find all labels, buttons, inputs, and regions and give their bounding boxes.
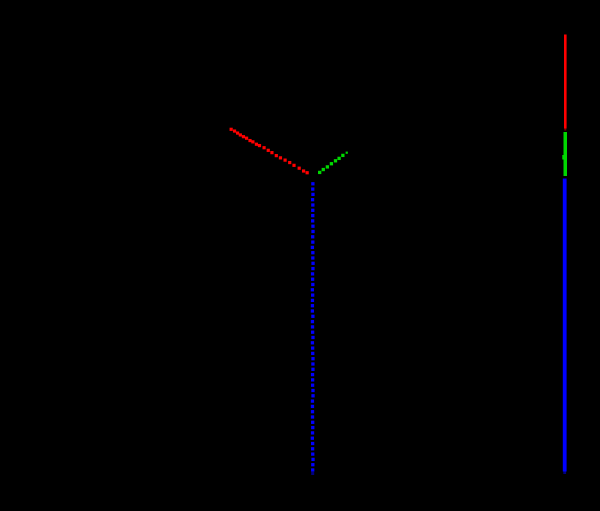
- right bar blue faint tail: [563, 472, 566, 475]
- blue dotted series (vertical line): [311, 182, 315, 475]
- right bar green notch: [562, 155, 564, 160]
- right bar green segment: [564, 132, 568, 176]
- right bar red segment: [564, 35, 567, 129]
- right bar blue segment: [563, 179, 567, 472]
- green dotted series (right ascending line): [318, 152, 348, 174]
- red dotted series (left descending line): [230, 128, 309, 175]
- right bar red faint tail: [564, 129, 566, 131]
